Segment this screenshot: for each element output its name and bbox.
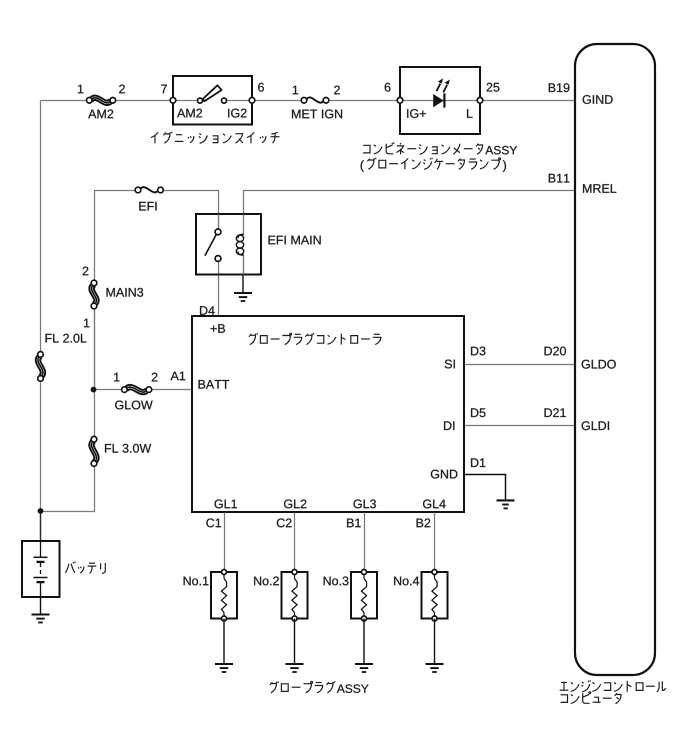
wire: GLOW fuse to controller BATT bbox=[149, 389, 193, 391]
battery box bbox=[22, 541, 60, 597]
wire: SI to GLDO (D3-D20) bbox=[465, 364, 576, 366]
glow plug No.1 bottom terminal bbox=[222, 616, 227, 621]
glow plug No.2 ground bbox=[294, 619, 296, 665]
wire: EFI fuse to relay switch bbox=[161, 191, 219, 232]
ignition switch lever bbox=[203, 85, 222, 101]
label GL1 bbox=[215, 499, 237, 508]
wire: EFI branch from main feed bbox=[95, 191, 139, 390]
label D4 bbox=[200, 306, 215, 315]
glow plug No.3 bottom terminal bbox=[362, 616, 367, 621]
wire: meter L to ECU GIND (B19) bbox=[481, 100, 576, 102]
glow plug No.3 box bbox=[351, 572, 377, 619]
ignition switch terminal 7 bbox=[170, 98, 176, 104]
label DI bbox=[444, 421, 454, 430]
label IG+ bbox=[407, 109, 426, 118]
ignition switch contact AM2 bbox=[198, 98, 203, 103]
label D5 bbox=[471, 408, 485, 417]
label AM2 pin 1 bbox=[78, 85, 83, 94]
label MAIN3 pin 1 bbox=[84, 319, 89, 328]
label pin 7 bbox=[161, 85, 167, 94]
label D20 pin GLDO bbox=[582, 360, 616, 369]
label B2 bbox=[417, 518, 431, 527]
fuse MET IGN bbox=[306, 97, 324, 102]
glow plug No.3 heater element bbox=[363, 572, 365, 579]
label C1 bbox=[206, 518, 221, 527]
combination meter box bbox=[400, 67, 480, 134]
label A1 bbox=[171, 372, 186, 381]
wire: relay coil down to ground bbox=[243, 254, 245, 275]
label battery (Japanese) bbox=[66, 562, 106, 574]
junction: battery feed tee bbox=[38, 508, 44, 514]
label GL2 bbox=[284, 499, 306, 508]
label D1 bbox=[471, 458, 485, 467]
ignition switch terminal 6 bbox=[249, 98, 255, 104]
label No.3 bbox=[324, 576, 349, 585]
label D3 bbox=[471, 347, 485, 356]
label meter pin 6 bbox=[385, 83, 391, 92]
relay EFI MAIN box bbox=[196, 214, 261, 275]
label B1 bbox=[347, 519, 361, 528]
wire GL4 to glow plug No.4 bbox=[434, 513, 436, 573]
fuse EFI bbox=[140, 187, 159, 192]
wire: FL3.0W down to junction row bbox=[41, 464, 95, 512]
wire GL3 to glow plug No.3 bbox=[364, 513, 366, 573]
wire: AM2 fuse to ignition switch bbox=[113, 100, 174, 102]
battery plate long 2 bbox=[34, 577, 48, 579]
label glow plug ASSY (Japanese) bbox=[270, 681, 335, 692]
glow plug No.4 heater element bbox=[434, 572, 436, 579]
glow plug No.1 ground bbox=[223, 619, 225, 665]
glow plug No.4 bottom terminal bbox=[432, 616, 437, 621]
wire: MAIN3/FL3.0W vertical to bottom junction bbox=[94, 307, 96, 440]
ignition switch box bbox=[173, 76, 252, 125]
wire: GLOW fuse branch to BATT A1 bbox=[95, 389, 125, 391]
glow plug No.2 bottom terminal bbox=[292, 616, 297, 621]
battery plate short 1 bbox=[37, 561, 45, 563]
label glow indicator lamp (Japanese) bbox=[361, 160, 364, 172]
battery ground bbox=[40, 597, 42, 615]
fusible link AM2 bbox=[91, 98, 112, 103]
label IG2 contact bbox=[228, 109, 246, 118]
controller GND wire + ground bbox=[464, 475, 506, 501]
glow plug No.3 top terminal bbox=[362, 570, 367, 575]
label FL 2.0L bbox=[46, 334, 87, 343]
glow plug No.4 top terminal bbox=[432, 570, 437, 575]
label D20 bbox=[545, 347, 566, 356]
label glow plug controller (Japanese) bbox=[249, 333, 381, 344]
label B19 bbox=[549, 83, 570, 92]
glow plug No.2 top terminal bbox=[292, 570, 297, 575]
label MET IGN pin 1 bbox=[293, 86, 298, 95]
meter terminal IG+ bbox=[397, 98, 403, 104]
glow plug No.1 box bbox=[211, 572, 237, 619]
label D21 bbox=[545, 408, 566, 417]
label No.2 bbox=[254, 576, 279, 585]
glow plug No.1 top terminal bbox=[222, 570, 227, 575]
label MAIN3 pin 2 bbox=[83, 267, 89, 276]
relay switch wire top bbox=[218, 215, 220, 232]
glow plug No.2 heater element bbox=[294, 572, 296, 579]
label ignition switch (Japanese) bbox=[151, 132, 280, 143]
junction: GLOW branch tee bbox=[91, 387, 97, 393]
fusible link FL 2.0L bbox=[38, 356, 43, 377]
label GND bbox=[431, 470, 458, 479]
label GL4 bbox=[423, 499, 446, 508]
label combination meter ASSY (Japanese) bbox=[363, 142, 483, 154]
relay switch contact bottom bbox=[215, 256, 221, 262]
LED glow indicator lamp bbox=[433, 78, 450, 107]
label EFI MAIN bbox=[269, 236, 321, 245]
glow plug No.1 heater element bbox=[223, 572, 225, 579]
wire GL2 to glow plug No.2 bbox=[294, 513, 296, 573]
wire: MET IGN fuse to meter bbox=[327, 100, 401, 102]
meter internal wire bbox=[401, 100, 481, 102]
glow plug No.4 box bbox=[422, 572, 448, 619]
ignition switch wire IG2 contact to 6 bbox=[225, 100, 253, 102]
ECU (engine control computer) box bbox=[575, 44, 655, 675]
wire: left battery feed vertical bbox=[40, 101, 42, 512]
label L bbox=[467, 109, 473, 118]
label GL3 bbox=[354, 499, 376, 508]
label C2 bbox=[277, 518, 292, 527]
wire GL1 to glow plug No.1 bbox=[224, 513, 226, 573]
wire: relay switch lower contact to D4 / +B bbox=[218, 259, 220, 317]
glow plug controller box bbox=[192, 316, 464, 512]
label D21 pin GLDI bbox=[582, 421, 609, 430]
label BATT bbox=[199, 380, 230, 389]
label pin 6 bbox=[258, 83, 264, 92]
battery plate long 1 bbox=[34, 556, 48, 558]
glow plug No.3 ground bbox=[363, 619, 365, 665]
wire: ignition switch to MET IGN fuse bbox=[253, 100, 305, 102]
label No.1 bbox=[184, 577, 209, 586]
battery dashed link bbox=[40, 563, 42, 577]
fusible link FL 3.0W bbox=[91, 441, 96, 462]
relay coil bbox=[243, 215, 245, 236]
label AM2 pin 2 bbox=[119, 85, 125, 94]
label GLOW pin 2 bbox=[152, 373, 158, 382]
battery plate short 2 bbox=[37, 581, 45, 583]
label AM2 contact bbox=[177, 109, 202, 118]
label MREL bbox=[583, 184, 616, 193]
label FL 3.0W bbox=[105, 444, 151, 453]
label B11 bbox=[549, 174, 570, 183]
label SI bbox=[445, 360, 455, 369]
label engine control computer line 2 (Japanese) bbox=[561, 692, 622, 704]
label MAIN3 bbox=[107, 288, 144, 297]
label GLOW pin 1 bbox=[114, 373, 119, 382]
relay coil ground bbox=[242, 275, 244, 294]
battery internal wire bottom bbox=[40, 583, 42, 597]
label MET IGN pin 2 bbox=[334, 86, 340, 95]
fusible link GLOW bbox=[126, 387, 147, 392]
label +B bbox=[211, 324, 225, 333]
relay switch lever bbox=[205, 235, 216, 256]
label meter pin 25 bbox=[487, 83, 500, 92]
fusible link MAIN3 bbox=[91, 285, 96, 305]
ignition switch contact IG2 bbox=[222, 98, 227, 103]
ignition switch wire 7 to AM2 contact bbox=[174, 100, 201, 102]
label EFI bbox=[139, 202, 156, 211]
label GIND bbox=[583, 95, 613, 104]
label AM2 bbox=[88, 109, 113, 118]
wire: relay coil to ECU MREL (B11) bbox=[244, 191, 576, 215]
label MET IGN bbox=[292, 109, 342, 118]
glow plug No.4 ground bbox=[434, 619, 436, 665]
label No.4 bbox=[394, 577, 419, 586]
wire: junction to battery (dark) bbox=[40, 511, 42, 541]
wire: DI to GLDI (D5-D21) bbox=[465, 425, 576, 427]
label engine control computer line 1 (Japanese) bbox=[560, 680, 666, 692]
relay switch contact top bbox=[215, 229, 221, 235]
label GLOW bbox=[115, 401, 153, 410]
battery internal wire top bbox=[40, 541, 42, 557]
meter terminal L bbox=[477, 98, 483, 104]
wire: top feed horizontal AM2 row bbox=[41, 100, 90, 102]
glow plug No.2 box bbox=[282, 572, 308, 619]
